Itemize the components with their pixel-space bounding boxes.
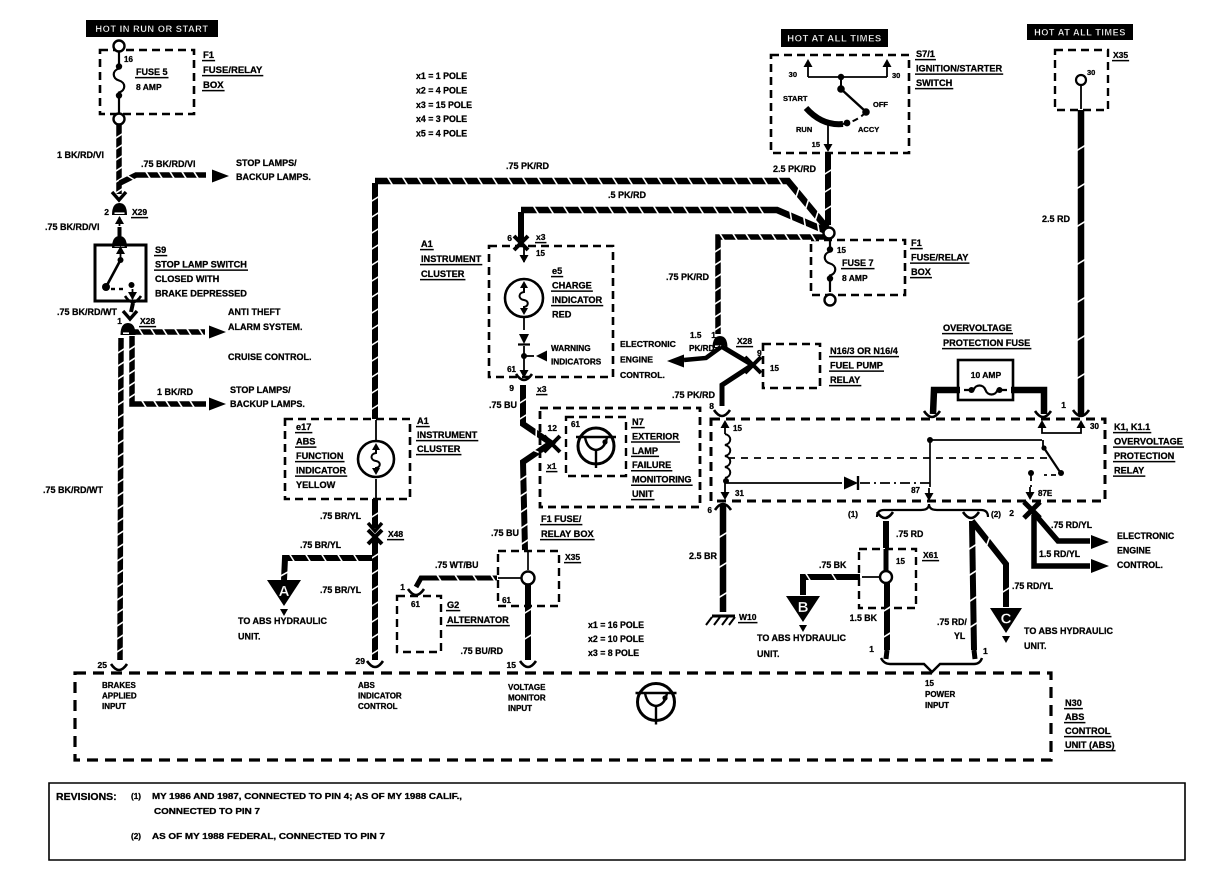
pin 87E label — [1038, 489, 1053, 498]
svg-text:2.5 RD: 2.5 RD — [1042, 214, 1071, 224]
label CRUISE CONTROL — [228, 352, 312, 362]
svg-text:STOP LAMPS/: STOP LAMPS/ — [230, 385, 291, 395]
wire stop lamps backup lamps branch 1 — [120, 170, 229, 184]
wire .75 PK/RD down to e17 — [371, 183, 379, 419]
svg-text:1: 1 — [1061, 400, 1066, 410]
label .75 PK/RD — [506, 161, 550, 171]
svg-text:INPUT: INPUT — [102, 702, 126, 711]
svg-text:61: 61 — [571, 420, 580, 429]
svg-text:x2 = 10 POLE: x2 = 10 POLE — [588, 634, 644, 644]
overvoltage protection fuse 10 AMP — [958, 360, 1013, 400]
label .75 RD — [896, 529, 923, 539]
svg-text:PROTECTION: PROTECTION — [1114, 451, 1175, 461]
svg-text:.75 PK/RD: .75 PK/RD — [672, 390, 716, 400]
svg-text:UNIT.: UNIT. — [1024, 641, 1047, 651]
svg-text:(1): (1) — [131, 792, 141, 801]
svg-text:30: 30 — [892, 71, 900, 80]
svg-text:6: 6 — [507, 233, 512, 243]
svg-text:x3 = 8 POLE: x3 = 8 POLE — [588, 648, 639, 658]
label S9 STOP LAMP SWITCH CLOSED WITH BRAKE DEPRESSED — [154, 245, 248, 299]
label TO ABS HYDRAULIC UNIT (B) — [757, 633, 847, 659]
label .75 BU (2) — [491, 528, 519, 538]
svg-text:RED: RED — [552, 310, 572, 320]
svg-text:15: 15 — [733, 424, 742, 433]
connector X28 pin 1 — [117, 316, 156, 335]
label .75 PK/RD (3) — [672, 390, 716, 400]
pin 25 label — [98, 660, 108, 670]
svg-text:TO ABS HYDRAULIC: TO ABS HYDRAULIC — [1024, 626, 1114, 636]
svg-text:HOT IN RUN OR START: HOT IN RUN OR START — [95, 24, 208, 34]
svg-text:STOP LAMP SWITCH: STOP LAMP SWITCH — [155, 260, 247, 270]
diode and dash-dot link — [727, 476, 930, 490]
label 1 BK/RD/VI — [57, 150, 104, 160]
wire .75 RD/YL right leg — [963, 512, 988, 656]
svg-text:.75 BU: .75 BU — [491, 528, 519, 538]
transistor N7 — [576, 428, 616, 468]
svg-text:CLUSTER: CLUSTER — [417, 444, 461, 454]
wire 1.5 PK/RD arrow to electronic engine control — [667, 347, 721, 368]
svg-text:1 BK/RD: 1 BK/RD — [157, 387, 194, 397]
connection point A — [267, 580, 301, 616]
fuel pump relay N16 — [763, 344, 820, 388]
svg-text:X28: X28 — [140, 316, 155, 326]
svg-text:x3 = 15 POLE: x3 = 15 POLE — [416, 100, 472, 110]
svg-text:X35: X35 — [1113, 50, 1128, 60]
svg-text:A1: A1 — [421, 239, 433, 249]
svg-text:ANTI THEFT: ANTI THEFT — [228, 307, 281, 317]
svg-text:30: 30 — [789, 70, 797, 79]
svg-text:.75 BK/RD/VI: .75 BK/RD/VI — [45, 222, 100, 232]
connector X48 — [368, 523, 404, 544]
label .75 BK/RD/WT (2) — [43, 485, 104, 495]
svg-text:OFF: OFF — [873, 100, 888, 109]
svg-text:(2): (2) — [991, 510, 1001, 519]
fuse F1 FUSE 5 8 AMP — [100, 41, 194, 125]
ignition starter switch S7/1 — [771, 55, 909, 153]
svg-text:1: 1 — [869, 644, 874, 654]
wire .75 BU — [519, 385, 551, 550]
svg-text:.75 BK/RD/WT: .75 BK/RD/WT — [43, 485, 104, 495]
svg-text:RUN: RUN — [796, 125, 812, 134]
wire .75 PK/RD long — [375, 177, 827, 228]
wire 2.5 BR to ground W10 — [708, 504, 731, 612]
svg-text:ABS: ABS — [1065, 712, 1084, 722]
label e17 ABS FUNCTION INDICATOR YELLOW — [295, 422, 347, 490]
svg-text:F1: F1 — [203, 50, 215, 61]
connection point C — [990, 608, 1022, 643]
connector X29 pin 2 — [104, 203, 148, 248]
label F1 FUSE/RELAY BOX (2) — [910, 238, 969, 278]
label 2.5 RD — [1042, 214, 1071, 224]
svg-text:CRUISE CONTROL.: CRUISE CONTROL. — [228, 352, 312, 362]
svg-text:1.5 BK: 1.5 BK — [850, 613, 878, 623]
label N16/3 OR N16/4 FUEL PUMP RELAY — [829, 346, 899, 386]
svg-text:1.5: 1.5 — [690, 331, 702, 340]
junction terminal fuse 7 top — [0, 0, 1, 1]
svg-text:x1: x1 — [547, 461, 557, 471]
wire fuse left leg — [924, 390, 960, 417]
power label HOT IN RUN OR START — [86, 20, 218, 37]
svg-text:S7/1: S7/1 — [916, 49, 935, 59]
svg-text:CHARGE: CHARGE — [552, 281, 592, 291]
svg-text:TO ABS HYDRAULIC: TO ABS HYDRAULIC — [238, 616, 328, 626]
label G2 ALTERNATOR — [446, 600, 510, 626]
svg-text:UNIT.: UNIT. — [238, 632, 261, 642]
svg-text:x5 = 4 POLE: x5 = 4 POLE — [416, 129, 467, 139]
revisions box — [49, 783, 1185, 860]
wire .75 PK/RD to X28 pin 1 — [714, 228, 834, 335]
svg-text:CLUSTER: CLUSTER — [421, 269, 465, 279]
svg-text:STOP LAMPS/: STOP LAMPS/ — [236, 158, 297, 168]
svg-text:BACKUP LAMPS.: BACKUP LAMPS. — [230, 399, 305, 409]
svg-text:.75 BK: .75 BK — [819, 560, 847, 570]
svg-text:31: 31 — [735, 489, 744, 498]
svg-text:BACKUP LAMPS.: BACKUP LAMPS. — [236, 172, 311, 182]
svg-text:W10: W10 — [739, 612, 757, 622]
label .75 BU/RD — [460, 646, 503, 656]
wire .75 BR/YL to X48 — [371, 499, 379, 528]
svg-text:G2: G2 — [447, 600, 459, 610]
svg-text:INSTRUMENT: INSTRUMENT — [417, 430, 478, 440]
svg-text:x1 = 16 POLE: x1 = 16 POLE — [588, 620, 644, 630]
svg-text:HOT AT ALL TIMES: HOT AT ALL TIMES — [1034, 27, 1126, 37]
svg-text:16: 16 — [124, 55, 133, 64]
svg-text:N16/3 OR N16/4: N16/3 OR N16/4 — [830, 346, 899, 356]
svg-text:BRAKE DEPRESSED: BRAKE DEPRESSED — [155, 289, 247, 299]
svg-text:15: 15 — [896, 557, 905, 566]
relay coil — [721, 420, 745, 500]
svg-text:X35: X35 — [565, 552, 580, 562]
transistor in abs unit — [636, 684, 677, 725]
label STOP LAMPS/ BACKUP LAMPS (2) — [230, 385, 305, 409]
svg-text:.5 PK/RD: .5 PK/RD — [608, 190, 647, 200]
ground W10 — [706, 612, 757, 625]
svg-text:CONTROL: CONTROL — [358, 702, 398, 711]
svg-text:x4 = 3 POLE: x4 = 3 POLE — [416, 114, 467, 124]
svg-text:15: 15 — [812, 140, 820, 149]
connection point B — [786, 596, 820, 632]
svg-text:.75 BU: .75 BU — [489, 400, 517, 410]
svg-text:87: 87 — [911, 486, 920, 495]
svg-text:ELECTRONIC: ELECTRONIC — [620, 339, 676, 349]
label e5 CHARGE INDICATOR RED — [551, 266, 603, 320]
svg-text:FUNCTION: FUNCTION — [296, 451, 344, 461]
cluster pin 9 — [509, 374, 547, 395]
label .75 WT/BU — [435, 560, 479, 570]
label ELECTRONIC ENGINE CONTROL (2) — [1117, 531, 1175, 570]
svg-text:x2 = 4 POLE: x2 = 4 POLE — [416, 85, 467, 95]
label STOP LAMPS/ BACKUP LAMPS — [236, 158, 311, 182]
svg-text:X48: X48 — [388, 529, 403, 539]
svg-text:N30: N30 — [1065, 698, 1082, 708]
label ELECTRONIC ENGINE CONTROL — [620, 339, 676, 380]
svg-text:INDICATOR: INDICATOR — [358, 692, 402, 701]
svg-text:FUSE 5: FUSE 5 — [136, 67, 168, 77]
wire to triangle C — [972, 521, 1010, 607]
svg-text:LAMP: LAMP — [632, 446, 658, 456]
svg-text:x3: x3 — [536, 232, 546, 242]
relay contact pin 30 bracket — [1038, 420, 1100, 433]
svg-text:1: 1 — [400, 582, 405, 592]
label BRAKES APPLIED INPUT — [102, 681, 137, 711]
svg-text:.75 BR/YL: .75 BR/YL — [320, 511, 362, 521]
label .75 BK/RD/VI — [141, 159, 196, 169]
svg-text:RELAY BOX: RELAY BOX — [541, 529, 594, 539]
svg-text:.75 RD/YL: .75 RD/YL — [1012, 581, 1054, 591]
label ABS INDICATOR CONTROL — [358, 681, 402, 711]
svg-text:.75 BK/RD/VI: .75 BK/RD/VI — [141, 159, 196, 169]
svg-text:ALTERNATOR: ALTERNATOR — [447, 615, 509, 625]
relay contact common link — [927, 437, 1042, 487]
overvoltage protection relay K1 box — [711, 419, 1105, 501]
label 15 POWER INPUT — [925, 679, 955, 710]
connector pin 12 X — [544, 423, 560, 452]
charge indicator e5 — [505, 247, 547, 378]
legend connector poles (bottom) — [588, 620, 644, 658]
svg-text:X28: X28 — [737, 336, 752, 346]
svg-text:MONITORING: MONITORING — [632, 475, 692, 485]
svg-text:BOX: BOX — [203, 80, 224, 91]
label .75 BK/RD/VI (2) — [45, 222, 100, 232]
svg-text:6: 6 — [708, 506, 713, 515]
svg-text:WARNING: WARNING — [551, 344, 591, 353]
label TO ABS HYDRAULIC UNIT (C) — [1024, 626, 1114, 651]
svg-text:1: 1 — [983, 646, 988, 656]
wire fuse right leg — [1011, 390, 1051, 417]
svg-text:UNIT (ABS): UNIT (ABS) — [1065, 740, 1115, 750]
svg-text:RELAY: RELAY — [830, 375, 860, 385]
svg-text:OVERVOLTAGE: OVERVOLTAGE — [1114, 437, 1183, 447]
svg-text:2.5 BR: 2.5 BR — [689, 551, 718, 561]
svg-text:8 AMP: 8 AMP — [842, 273, 868, 283]
svg-text:1 BK/RD/VI: 1 BK/RD/VI — [57, 150, 104, 160]
svg-text:2.5 PK/RD: 2.5 PK/RD — [773, 164, 817, 174]
label N30 ABS CONTROL UNIT — [1064, 698, 1116, 751]
wire branch to triangle A — [280, 554, 372, 580]
fuse relay box F1 around N7 — [540, 408, 700, 507]
label 1.5 PK/RD — [689, 331, 715, 353]
svg-text:9: 9 — [509, 383, 514, 393]
svg-text:HOT AT ALL TIMES: HOT AT ALL TIMES — [787, 33, 882, 44]
connector X35 terminal 30 — [1055, 50, 1129, 110]
wire 1 BK/RD branch — [128, 336, 226, 411]
svg-text:29: 29 — [356, 656, 366, 666]
svg-text:AS OF MY 1988 FEDERAL, CONNECT: AS OF MY 1988 FEDERAL, CONNECTED TO PIN … — [152, 832, 386, 841]
wire .75 BR/YL down to pin 29 — [367, 540, 383, 667]
label VOLTAGE MONITOR INPUT — [508, 683, 546, 713]
svg-text:FUSE 7: FUSE 7 — [842, 258, 874, 268]
wire anti theft arrow — [129, 326, 226, 339]
label OVERVOLTAGE PROTECTION FUSE — [942, 323, 1031, 349]
svg-text:ABS: ABS — [358, 681, 376, 690]
label .75 BK/RD/WT — [57, 307, 118, 317]
svg-text:8 AMP: 8 AMP — [136, 82, 162, 92]
wire left main vertical .75 BK/RD/WT — [111, 338, 127, 670]
svg-text:C: C — [1001, 611, 1012, 628]
svg-text:FUSE/RELAY: FUSE/RELAY — [911, 253, 968, 263]
svg-text:IGNITION/STARTER: IGNITION/STARTER — [916, 64, 1002, 74]
svg-text:YL: YL — [954, 631, 966, 641]
svg-text:INDICATOR: INDICATOR — [552, 295, 603, 305]
wire 2.5 PK/RD ignition feed — [824, 154, 832, 225]
svg-text:15: 15 — [837, 246, 846, 255]
connector pin 87E X — [1009, 502, 1040, 518]
label TO ABS HYDRAULIC UNIT (A) — [238, 616, 328, 642]
svg-text:F1: F1 — [911, 238, 922, 248]
wire .75 RD/YL to EEC — [1033, 512, 1109, 549]
svg-text:YELLOW: YELLOW — [296, 480, 336, 490]
svg-text:N7: N7 — [632, 417, 644, 427]
svg-text:15: 15 — [507, 660, 517, 670]
indicator bulb e17 — [358, 420, 394, 499]
svg-text:FAILURE: FAILURE — [632, 460, 671, 470]
svg-text:F1 FUSE/: F1 FUSE/ — [541, 514, 582, 524]
wire .5 PK/RD to cluster pin 6 — [507, 212, 546, 250]
pin 15 label — [507, 660, 517, 670]
svg-text:15: 15 — [770, 364, 779, 373]
wire 1.5 RD/YL to EEC — [1034, 515, 1109, 573]
svg-text:X61: X61 — [923, 550, 938, 560]
label .75 BR/YL (2) — [300, 540, 342, 550]
svg-text:ALARM SYSTEM.: ALARM SYSTEM. — [228, 322, 303, 332]
svg-text:9: 9 — [757, 348, 762, 358]
label .75 BR/YL (3) — [320, 585, 362, 595]
power label HOT AT ALL TIMES (left) — [781, 29, 888, 47]
svg-text:.75 RD: .75 RD — [896, 529, 923, 539]
svg-text:12: 12 — [548, 423, 558, 433]
revisions text — [56, 791, 462, 841]
svg-text:2: 2 — [1009, 508, 1014, 518]
label .75 BR/YL — [320, 511, 362, 521]
label .75 BU — [489, 400, 517, 410]
svg-text:UNIT: UNIT — [632, 489, 654, 499]
svg-text:POWER: POWER — [925, 690, 955, 699]
brace to 15 POWER INPUT — [881, 650, 982, 672]
svg-text:ABS: ABS — [296, 437, 315, 447]
svg-text:CONTROL.: CONTROL. — [1117, 560, 1163, 570]
svg-text:1: 1 — [117, 316, 122, 326]
label .75 RD/YL (C) — [1012, 581, 1054, 591]
label A1 INSTRUMENT CLUSTER — [420, 239, 482, 280]
svg-text:ENGINE: ENGINE — [1117, 546, 1151, 556]
label N7 EXTERIOR LAMP FAILURE MONITORING UNIT — [631, 417, 693, 500]
svg-text:FUEL PUMP: FUEL PUMP — [830, 361, 883, 371]
monitoring unit N7 inner box — [546, 417, 626, 476]
svg-text:CONNECTED TO PIN 7: CONNECTED TO PIN 7 — [154, 807, 261, 816]
svg-text:A1: A1 — [417, 416, 429, 426]
svg-text:REVISIONS:: REVISIONS: — [56, 791, 117, 803]
label A1 INSTRUMENT CLUSTER (2) — [416, 416, 478, 455]
svg-text:ELECTRONIC: ELECTRONIC — [1117, 531, 1175, 541]
svg-text:.75 RD/YL: .75 RD/YL — [1051, 520, 1093, 530]
wire .75 WT/BU — [416, 574, 497, 587]
svg-text:61: 61 — [502, 596, 511, 605]
relay contact arm — [1026, 440, 1065, 500]
svg-text:SWITCH: SWITCH — [916, 78, 953, 88]
svg-text:K1, K1.1: K1, K1.1 — [1114, 422, 1150, 432]
svg-text:.75 RD/: .75 RD/ — [937, 617, 967, 627]
svg-text:e5: e5 — [552, 266, 562, 276]
svg-text:B: B — [798, 599, 809, 616]
svg-text:.75 BR/YL: .75 BR/YL — [320, 585, 362, 595]
connector X28 below S9 — [123, 296, 141, 319]
label 2.5 PK/RD — [773, 164, 817, 174]
alternator G2 — [397, 582, 441, 652]
svg-text:87E: 87E — [1038, 489, 1053, 498]
label K1 K1.1 OVERVOLTAGE PROTECTION RELAY — [1113, 422, 1184, 476]
pin 29 label — [356, 656, 366, 666]
svg-text:BRAKES: BRAKES — [102, 681, 136, 690]
svg-text:FUSE/RELAY: FUSE/RELAY — [203, 65, 263, 76]
svg-text:x3: x3 — [537, 384, 547, 394]
connector X35 (middle) — [498, 551, 581, 606]
label .5 PK/RD — [608, 190, 647, 200]
svg-text:8: 8 — [709, 401, 714, 411]
pin 87 arrow — [911, 486, 933, 501]
label .75 RD/YL (leg) — [937, 617, 967, 641]
svg-text:INPUT: INPUT — [508, 704, 532, 713]
svg-text:PROTECTION FUSE: PROTECTION FUSE — [943, 338, 1030, 348]
svg-text:61: 61 — [507, 365, 516, 374]
svg-text:.75 BU/RD: .75 BU/RD — [460, 646, 503, 656]
label 1 BK/RD — [157, 387, 194, 397]
svg-text:.75 BR/YL: .75 BR/YL — [300, 540, 342, 550]
abs function indicator box e17 — [285, 419, 410, 499]
label 1.5 BK — [850, 613, 878, 623]
svg-text:15: 15 — [536, 249, 545, 258]
svg-text:.75 PK/RD: .75 PK/RD — [666, 272, 710, 282]
wire .75 BU/RD — [520, 585, 536, 667]
brace under pin 87 — [848, 504, 1001, 519]
wire 2.5 RD — [1061, 110, 1089, 416]
wire .75 RD to X61 — [877, 512, 893, 548]
power label HOT AT ALL TIMES (right) — [1027, 24, 1133, 40]
fuse F1 FUSE 7 8 AMP — [811, 239, 905, 306]
svg-text:MONITOR: MONITOR — [508, 694, 546, 703]
label 2.5 BR — [689, 551, 718, 561]
svg-text:A: A — [279, 583, 290, 600]
wire fuse F1 to connector X29 — [112, 125, 126, 200]
svg-text:INSTRUMENT: INSTRUMENT — [421, 254, 482, 264]
svg-text:BOX: BOX — [911, 267, 932, 277]
svg-text:25: 25 — [98, 660, 108, 670]
svg-text:1: 1 — [711, 330, 716, 340]
svg-text:30: 30 — [1087, 68, 1095, 77]
label .75 PK/RD (2) — [666, 272, 710, 282]
svg-text:INDICATOR: INDICATOR — [296, 466, 347, 476]
svg-text:1.5 RD/YL: 1.5 RD/YL — [1039, 549, 1081, 559]
stop lamp switch S9 — [95, 245, 146, 301]
svg-text:CONTROL.: CONTROL. — [620, 370, 665, 380]
svg-text:10 AMP: 10 AMP — [971, 370, 1002, 380]
svg-text:.75 WT/BU: .75 WT/BU — [435, 560, 479, 570]
svg-text:ACCY: ACCY — [858, 125, 879, 134]
svg-text:START: START — [783, 94, 808, 103]
legend connector poles — [416, 71, 472, 139]
svg-text:UNIT.: UNIT. — [757, 649, 780, 659]
svg-text:TO ABS HYDRAULIC: TO ABS HYDRAULIC — [757, 633, 847, 643]
svg-text:PK/RD: PK/RD — [689, 344, 715, 353]
instrument cluster A1 box — [489, 246, 613, 377]
label 1.5 RD/YL — [1039, 549, 1081, 559]
svg-text:INDICATORS: INDICATORS — [551, 358, 602, 367]
label ANTI THEFT ALARM SYSTEM — [228, 307, 303, 332]
svg-text:APPLIED: APPLIED — [102, 692, 137, 701]
svg-text:(1): (1) — [848, 510, 858, 519]
svg-text:MY 1986 AND 1987, CONNECTED TO: MY 1986 AND 1987, CONNECTED TO PIN 4; AS… — [152, 792, 462, 801]
wire to fuel pump relay pin 9 — [721, 346, 762, 373]
svg-text:S9: S9 — [155, 245, 166, 255]
